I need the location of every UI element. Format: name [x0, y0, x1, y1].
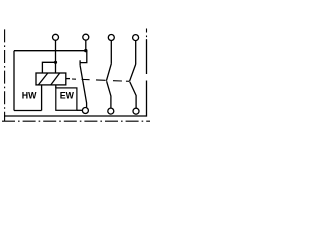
unit box left edge: [13, 51, 15, 111]
coil hatch 2: [51, 73, 60, 85]
svg-text:EW: EW: [60, 90, 75, 100]
wire T4 lead: [135, 40, 137, 64]
unit box right edge upper: [146, 40, 148, 75]
housing boundary right top (dash-dot): [146, 29, 148, 40]
contact B3: [133, 108, 139, 114]
wire switch S1 feed: [80, 51, 87, 63]
switch S2 blade lower: [107, 81, 111, 108]
switch S2 blade upper: [106, 63, 111, 80]
coil hatch 1: [38, 73, 47, 85]
wire T2 lead: [85, 40, 87, 51]
relay coil K1 box: [36, 73, 66, 85]
HW box right wall: [41, 85, 43, 111]
terminal T3: [108, 35, 114, 41]
contact B2: [108, 108, 114, 114]
terminal T2: [83, 34, 89, 40]
unit box top edge: [14, 50, 86, 52]
node dot on T1 lead: [54, 61, 57, 64]
HW box bottom: [14, 110, 42, 112]
svg-text:HW: HW: [22, 90, 37, 100]
contact B1: [82, 108, 88, 114]
wire T3 lead: [110, 40, 112, 63]
node junction on top edge: [84, 49, 87, 52]
wire T1 lead: [55, 40, 57, 73]
switch S1 blade: [80, 65, 87, 107]
switch S3 blade upper: [130, 64, 136, 81]
wire EW box to B1: [77, 109, 83, 111]
wire coil right lead: [66, 78, 70, 80]
switch S3 blade lower: [130, 82, 136, 108]
terminal T4: [133, 35, 139, 41]
wire S1 pivot stub: [79, 60, 81, 65]
unit box right edge lower: [146, 81, 148, 117]
terminal T1: [53, 34, 59, 40]
unit box bottom bus: [4, 115, 147, 117]
housing boundary left (dash-dot): [4, 29, 6, 121]
mechanical linkage (dashed): [72, 79, 130, 81]
wire coil top-left entry: [42, 62, 55, 73]
EW box: [56, 88, 77, 110]
wire coil to EW box: [55, 85, 57, 88]
housing boundary bottom (dash-dot): [2, 120, 150, 122]
